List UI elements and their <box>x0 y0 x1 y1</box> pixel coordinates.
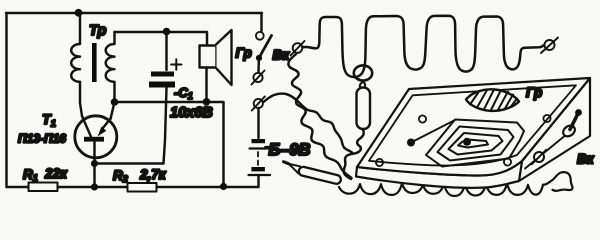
board right side face <box>519 78 590 181</box>
svg-text:-C1: -C1 <box>174 85 193 101</box>
screw top-right <box>543 115 550 122</box>
svg-text:R1: R1 <box>23 167 38 183</box>
pencil tip cone <box>289 164 300 174</box>
transformer Tr secondary winding <box>106 32 115 98</box>
coil feed line <box>411 120 455 143</box>
resistor R2 <box>128 183 157 192</box>
wire bottom rail mid segment <box>58 186 129 188</box>
clamp terminal antenna <box>291 41 305 56</box>
battery B plate short 1 <box>252 139 266 143</box>
node C1 top <box>163 28 171 36</box>
wire emitter line <box>115 102 224 187</box>
node emitter junction <box>111 98 119 106</box>
coil spiral ring 1 <box>426 120 524 167</box>
antenna insulator capsule <box>357 88 371 130</box>
transistor T1 circle <box>75 116 117 158</box>
speaker Gr bottom lead <box>205 68 207 102</box>
capacitor C1 top lead <box>165 32 167 71</box>
board inner border <box>369 85 576 165</box>
battery B plate long 1 <box>250 147 270 149</box>
switch Vk top lead <box>260 13 262 31</box>
capacitor C1 bottom lead to base <box>95 88 167 164</box>
transformer Tr primary winding <box>71 13 82 116</box>
transformer Tr core <box>92 43 97 82</box>
clamp terminal upper <box>252 71 265 85</box>
screw bottom-right <box>504 158 511 165</box>
svg-text:2,7к: 2,7к <box>139 167 167 182</box>
node speaker bottom <box>203 98 211 106</box>
svg-text:10х6В: 10х6В <box>170 105 213 121</box>
svg-text:22к: 22к <box>44 166 68 181</box>
wire secondary top to speaker <box>115 32 208 46</box>
wire top rail <box>6 12 262 14</box>
capacitor C1 top plate <box>151 72 174 77</box>
svg-text:R2: R2 <box>113 168 128 184</box>
antenna insulator knot <box>359 79 366 87</box>
toggle switch Vk board base <box>561 123 577 138</box>
svg-text:Гр: Гр <box>236 46 252 61</box>
antenna wire loops <box>303 16 545 77</box>
insulator tail wire <box>357 129 364 153</box>
board top face <box>357 78 590 176</box>
label battery B-9V <box>265 146 271 148</box>
coil inner dot <box>463 138 471 146</box>
capacitor C1 bottom plate <box>149 82 175 88</box>
resistor R1 <box>29 183 58 192</box>
clamp terminal antenna far <box>541 38 558 54</box>
coil spiral ring 3 <box>449 133 503 155</box>
screw top-left <box>419 115 426 122</box>
svg-text:П13-П16: П13-П16 <box>18 132 66 146</box>
wire left rail <box>5 13 7 187</box>
svg-text:Тр: Тр <box>89 23 106 39</box>
node emitter-net on bottom rail <box>220 183 227 190</box>
wire switch to clamp <box>257 61 260 72</box>
speaker Gr cone <box>217 30 232 85</box>
node top rail to transformer <box>75 9 83 17</box>
merged squiggle into wave <box>344 153 358 180</box>
antenna insulator ring <box>354 65 372 80</box>
transistor T1 emitter lead <box>111 102 115 119</box>
board clamp terminal <box>534 152 544 162</box>
transistor T1 collector diagonal <box>82 116 91 137</box>
transistor T1 base bar <box>84 137 104 142</box>
transistor T1 emitter diagonal with arrow <box>103 119 111 129</box>
coil spiral inner hook <box>458 140 488 148</box>
svg-text:Б–9В: Б–9В <box>269 141 311 159</box>
wire bottom rail right segment <box>157 186 259 188</box>
board clamp slash <box>532 150 546 164</box>
battery B dashed link <box>257 152 259 165</box>
battery B plate long 2 <box>249 174 271 176</box>
switch wire doubling as clamp slash <box>525 134 567 169</box>
pencil lead <box>284 162 289 164</box>
transistor T1 emitter arrowhead <box>98 127 107 137</box>
switch Vk lever <box>259 36 271 58</box>
toggle switch Vk board knob <box>575 109 582 116</box>
node base junction <box>91 160 98 167</box>
svg-text:Вк: Вк <box>273 48 291 63</box>
screw bottom-left <box>376 159 383 166</box>
grille hatching <box>470 90 517 111</box>
board front side face <box>356 161 522 188</box>
toggle switch Vk board lever <box>570 115 578 130</box>
svg-text:Гр: Гр <box>526 85 542 100</box>
earth wave <box>339 172 573 196</box>
svg-text:Вк: Вк <box>577 152 595 167</box>
node base-rail junction <box>91 183 98 190</box>
coil spiral ring 2 <box>438 127 514 161</box>
battery B bottom lead <box>257 175 259 187</box>
coil feed dot <box>407 139 415 147</box>
wire bottom rail left segment <box>7 186 31 188</box>
svg-text:Т1: Т1 <box>42 111 56 130</box>
speaker grille lens <box>466 89 519 111</box>
switch Vk bottom contact <box>256 55 262 61</box>
transistor T1 base lead <box>93 142 95 187</box>
clamp terminal battery <box>252 97 265 111</box>
battery B plate short 2 <box>251 167 265 171</box>
pencil body <box>298 166 342 185</box>
capacitor C1 plus sign <box>171 59 181 69</box>
battery B top lead <box>257 108 259 138</box>
wire from battery clamp to board <box>264 94 353 153</box>
ground wire from antenna clamp <box>288 54 351 179</box>
speaker Gr frame <box>200 46 217 68</box>
switch Vk top contact <box>256 32 264 40</box>
